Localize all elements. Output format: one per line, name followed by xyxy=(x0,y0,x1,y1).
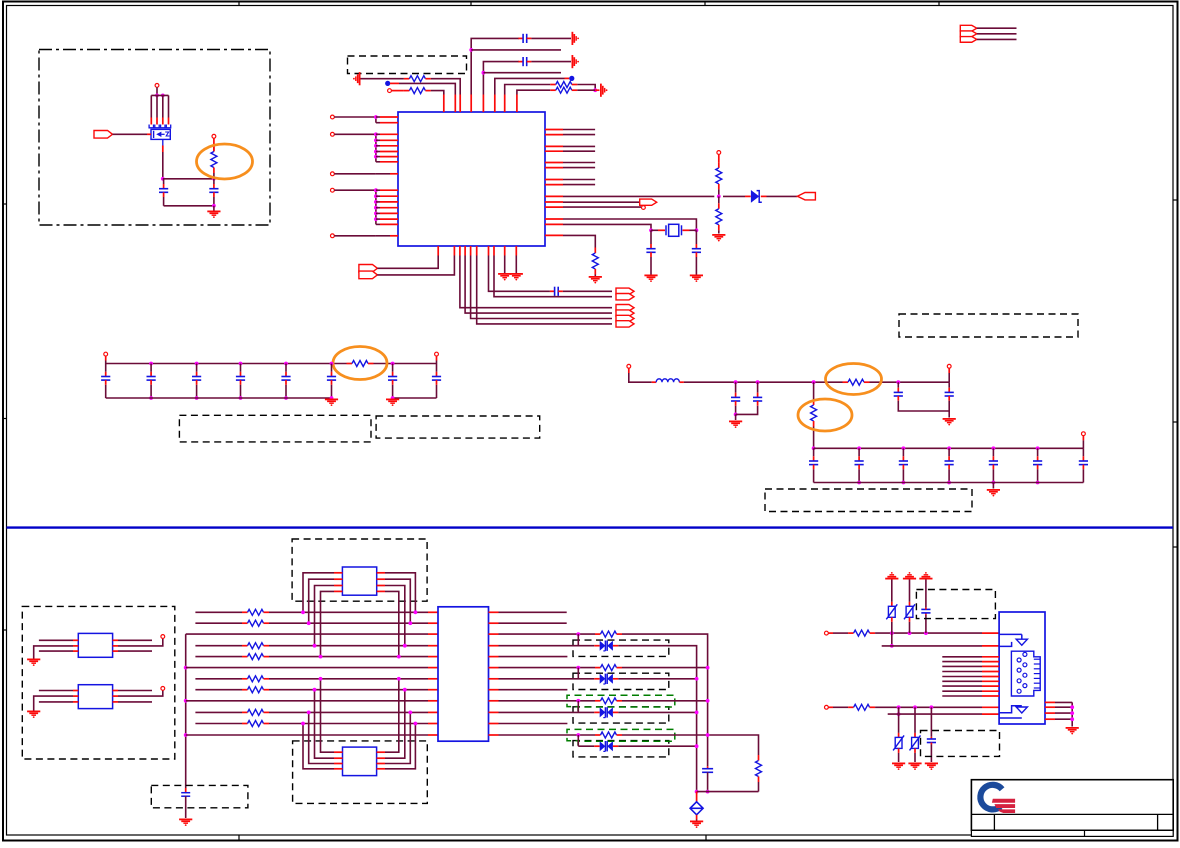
wire J1 signal 8 xyxy=(942,690,982,692)
wire lcap 1 upper xyxy=(858,448,860,456)
ground G9 xyxy=(386,399,399,406)
resistor R14 xyxy=(848,704,875,710)
pin IC2 left row9 xyxy=(428,700,438,702)
wire top row2 xyxy=(882,645,982,647)
op-amp U1 main controller IC body xyxy=(398,112,545,246)
wire T13 down xyxy=(629,373,652,382)
ground G16 xyxy=(179,819,192,826)
wire dio g2 right xyxy=(618,678,696,680)
wire XF2 L4 to row xyxy=(303,724,334,769)
junction bottom bus c2 xyxy=(195,396,199,400)
junction bus B1 y700.8 xyxy=(184,699,188,703)
junction vertical A g2 xyxy=(706,666,710,670)
junction XF2 L4 xyxy=(301,722,305,726)
pin U1 bottom x488.5 xyxy=(488,246,490,256)
wire T8 single horizontal xyxy=(334,235,376,237)
pin U2 right y678.8 xyxy=(489,678,499,680)
pin U1 left y235.8 xyxy=(376,235,398,237)
wire source node bus xyxy=(163,178,214,180)
junction divider node xyxy=(717,195,721,199)
wire C29 upper xyxy=(925,580,927,608)
pin J1 signal 7 xyxy=(982,685,999,687)
pin U2 right y645.7 xyxy=(489,645,499,647)
wire row6 from bus xyxy=(186,667,428,669)
ground G4 xyxy=(712,235,725,242)
wire pin 516 to ground xyxy=(515,256,517,274)
wire sig row g1 xyxy=(499,633,596,635)
wire C18 upper xyxy=(897,382,899,388)
varistor V1 xyxy=(886,602,897,622)
wire row8 left segment xyxy=(195,689,242,691)
wire lcap 6 lower xyxy=(1082,469,1084,482)
connector J1 body xyxy=(999,612,1045,724)
port P5 xyxy=(359,271,378,279)
stub T19 xyxy=(828,706,833,708)
wire row11 left segment xyxy=(195,723,242,725)
wire pin 476 to port row xyxy=(477,256,612,324)
junction right bottom bus xyxy=(391,396,395,400)
pin U1 right y207 xyxy=(545,206,563,208)
resistor R7 xyxy=(716,203,722,230)
junction bus B1 y667.6 xyxy=(184,666,188,670)
pin IC2 left row3 xyxy=(428,633,438,635)
pin U1 bottom x504.7 xyxy=(504,246,506,256)
wire R3 to U1 pin1 xyxy=(431,91,444,95)
pin IC2 left row6 xyxy=(428,667,438,669)
capacitor C22 xyxy=(899,456,908,469)
wire lcap 2 upper xyxy=(902,448,904,456)
junction bottom row x915 xyxy=(913,705,917,709)
wire sig g1 to vertical A xyxy=(622,634,708,766)
wire cap r1 lower xyxy=(436,385,438,398)
highlight ellipse around R9 xyxy=(333,347,387,380)
wire J1 right 1 xyxy=(1055,701,1072,703)
junction crystal right xyxy=(695,228,699,232)
capacitor C19 xyxy=(945,388,954,401)
wire C17 lower xyxy=(736,406,758,415)
wire lcap 5 upper xyxy=(1037,448,1039,456)
wire R11 upper xyxy=(813,382,815,399)
wire C7 to port P10 xyxy=(563,290,612,292)
dashed annotation box D5 xyxy=(899,314,1078,337)
wire row10 right segment xyxy=(269,711,428,713)
wire Q1 source down xyxy=(162,152,164,179)
wire R2 to U1 pin3 xyxy=(431,79,460,95)
wire pin 465 to port row xyxy=(465,256,612,314)
junction lower top bus 3 xyxy=(947,446,951,450)
capacitor C12 xyxy=(281,372,290,385)
wire T4 group A horizontal xyxy=(334,116,376,118)
port P9 xyxy=(616,321,634,327)
pin U1 left y219.1 xyxy=(376,218,398,220)
junction pin5 branch xyxy=(482,71,486,75)
junction bus C17 xyxy=(756,380,760,384)
wire T12 down xyxy=(436,361,438,364)
wire XF2 L3 to row xyxy=(309,712,334,763)
wire link rows top xyxy=(891,633,893,646)
junction lower top bus 2 xyxy=(902,446,906,450)
port P10 xyxy=(616,288,634,294)
wire row4 stub xyxy=(483,72,561,74)
wire U1 right stub y184.6 xyxy=(563,184,595,186)
resistor RN1 xyxy=(242,609,269,615)
pin J1 right 4 xyxy=(1045,718,1055,720)
wire row5 right segment xyxy=(269,656,428,658)
dash-dot block boundary box top-left xyxy=(39,50,270,226)
wire CH2 R1 xyxy=(118,690,152,692)
junction T7 group C r196.2 xyxy=(374,194,378,198)
resistor RN6 xyxy=(242,687,269,693)
stub T12 xyxy=(436,356,438,361)
junction bottom B xyxy=(695,790,699,794)
wire T4 group A vertical bus xyxy=(375,117,377,123)
green dashed box group 4 xyxy=(567,729,675,745)
resistor R8 xyxy=(592,248,598,275)
junction XF1 L3 xyxy=(313,644,317,648)
pin U1 right y184.6 xyxy=(545,184,563,186)
pin U2 right y634.1 xyxy=(489,633,499,635)
junction XF1 R3 xyxy=(403,644,407,648)
wire U1 right stub y167.6 xyxy=(563,167,595,169)
wire node to diode D1 xyxy=(723,195,745,197)
junction top bus c5 xyxy=(330,362,334,366)
pin U1 right y129.5 xyxy=(545,129,563,131)
junction T7 group C r219.1 xyxy=(374,217,378,221)
junction top row x891.8 xyxy=(890,631,894,635)
wire row 219 to crystal right xyxy=(563,219,696,230)
wire varistor V3 upper xyxy=(898,707,900,733)
junction XF1 R2 xyxy=(408,621,412,625)
dashed annotation box D11 xyxy=(921,731,1000,757)
wire U1 right stub y129.5 xyxy=(563,129,595,131)
pin J1 signal 9 xyxy=(982,695,999,697)
wire cap 1 lower xyxy=(105,385,107,398)
pin U1 right y224 xyxy=(545,223,563,225)
pin XF1 R1 xyxy=(377,572,385,574)
ground G20 xyxy=(1066,728,1079,735)
wire dio row g3 left xyxy=(499,711,595,713)
dashed box TVS group 4 xyxy=(573,741,669,757)
pin XF2 L1 xyxy=(334,751,343,753)
junction C16 bottom xyxy=(734,413,738,417)
wire CH2 L1 xyxy=(39,690,73,692)
wire R1 upper lead xyxy=(213,146,215,152)
stub B1 xyxy=(390,82,399,84)
junction lower top bus 4 xyxy=(992,446,996,450)
wire crystal left lead xyxy=(651,229,658,231)
wire P14 stub xyxy=(977,38,1017,40)
wire dio g1 to vertical B xyxy=(618,646,696,792)
junction lower bank entry xyxy=(812,446,816,450)
diode TVS D4 xyxy=(594,707,618,717)
resistor RS3 xyxy=(595,698,622,704)
dashed annotation box D2 xyxy=(179,415,371,442)
wire R1 node down to C2 xyxy=(213,179,215,184)
port P8 xyxy=(616,315,634,321)
wire vertical bus B1 xyxy=(185,634,187,788)
junction sig g3 xyxy=(576,699,580,703)
ground GR2 right-facing xyxy=(572,55,579,68)
wire lcap 6 upper xyxy=(1082,448,1084,456)
wire varistor V2 upper xyxy=(909,580,911,602)
wire cap 3 lower xyxy=(196,385,198,398)
wire lcap 0 lower xyxy=(813,469,815,482)
pin U1 left y140.3 xyxy=(376,139,398,141)
op-amp U2 PHY IC body xyxy=(438,607,489,741)
junction bottom bus c4 xyxy=(284,396,288,400)
pins CH1 left xyxy=(73,640,78,651)
wire XF1 R2 to row xyxy=(385,579,410,623)
diode TVS D2 xyxy=(594,641,618,651)
wire XF1 R1 to row xyxy=(385,573,415,613)
resistor R2 xyxy=(404,76,431,82)
terminal T13 xyxy=(627,364,631,368)
wire cap 5 lower xyxy=(285,385,287,398)
wire cap 5 upper xyxy=(285,364,287,372)
dashed box D8 around XF2 xyxy=(293,741,428,804)
wire pin 459 to port row xyxy=(460,256,612,308)
terminal T5 group B xyxy=(331,132,335,136)
pin J1 signal 5 xyxy=(982,676,999,678)
pin U1 left y224.4 xyxy=(376,223,398,225)
diode TVS D3 xyxy=(594,674,618,684)
junction source node xyxy=(161,177,165,181)
wire lcap 3 upper xyxy=(948,448,950,456)
capacitor C28 xyxy=(181,793,190,797)
junction T7 group C r190.2 xyxy=(374,188,378,192)
pin U1 top 5 xyxy=(482,95,484,113)
wire U1 pin5 up xyxy=(483,62,519,95)
ground G3 xyxy=(690,275,703,282)
wire dio row g4 left xyxy=(578,745,594,747)
wire sig g3 right xyxy=(622,700,708,702)
ground G2 xyxy=(644,275,657,282)
wire R1 to node xyxy=(213,173,215,179)
resistor RS2 xyxy=(595,665,622,671)
wire drop g1 xyxy=(577,634,579,646)
wire row 235 corner down xyxy=(563,235,595,247)
wire C16 upper xyxy=(735,382,737,393)
dashed box TVS group 1 xyxy=(573,640,669,656)
capacitor C6 xyxy=(692,244,701,257)
wire CH1 R1 xyxy=(118,639,152,641)
pin CONN top2 xyxy=(982,645,999,647)
wire C3 to GR1 xyxy=(531,37,571,39)
pin J1 right 2 xyxy=(1045,706,1055,708)
pin U1 left y196.2 xyxy=(376,195,398,197)
wire crystal right to C6 xyxy=(695,230,697,244)
resistor R1 xyxy=(211,146,217,173)
wire R10 to T14 xyxy=(870,381,950,383)
pin U1 left y122.7 xyxy=(376,122,398,124)
wire row8 right segment xyxy=(269,689,428,691)
title block divider lines xyxy=(971,814,1173,830)
dashed annotation box D3 xyxy=(376,416,540,438)
pin stub Q1 drain pin 3 xyxy=(162,118,164,125)
port P7 xyxy=(616,310,634,316)
junction lower bottom bus 1 xyxy=(857,481,861,485)
junction lower top bus 5 xyxy=(1036,446,1040,450)
wire pin 470 to port row xyxy=(471,256,612,319)
varistor V4 xyxy=(910,733,921,753)
pin U1 right y134.6 xyxy=(545,134,563,136)
dashed annotation box D4 xyxy=(765,489,972,512)
pin U1 bottom x438.2 xyxy=(437,246,439,256)
transistor Q1 drain comb xyxy=(149,125,171,128)
resistor RS1 xyxy=(595,631,622,637)
capacitor C23 xyxy=(945,456,954,469)
wire Q1 drain pin 3 vertical xyxy=(162,95,164,117)
highlight ellipse around R1 xyxy=(197,144,253,179)
junction vertical A g3 xyxy=(706,699,710,703)
terminal T17 xyxy=(161,687,165,691)
wire cap 2 lower xyxy=(150,385,152,398)
wire lcap 4 lower xyxy=(992,469,994,482)
wire R11 lower xyxy=(813,427,815,449)
capacitor C2 xyxy=(209,184,218,197)
capacitor C15 xyxy=(432,372,441,385)
terminal T15 xyxy=(1082,432,1086,436)
wire pin 494 to port P11 xyxy=(494,256,612,297)
stub T18 xyxy=(828,632,833,634)
port P3 xyxy=(640,199,657,205)
wire diamond to ground xyxy=(696,820,698,821)
wire row 207 stub xyxy=(563,206,641,208)
power flag F3 xyxy=(919,572,932,579)
wire J1 right 3 xyxy=(1055,712,1072,714)
wire row2 left segment xyxy=(195,622,242,624)
junction XF2 L2 xyxy=(313,688,317,692)
resistor RN2 xyxy=(242,620,269,626)
power terminal above R1 xyxy=(212,134,216,138)
junction sig g1 xyxy=(576,632,580,636)
terminal T3 xyxy=(388,89,392,93)
diode TVS D5 xyxy=(594,741,618,751)
wire cap 4 lower xyxy=(240,385,242,398)
wire C16 lower xyxy=(735,406,737,415)
junction bottom row x931.4 xyxy=(930,705,934,709)
pin stub Q1 drain pin 4 xyxy=(168,118,170,125)
wire row 196 to junction xyxy=(563,195,714,197)
junction top bus c3 xyxy=(239,362,243,366)
junction lower bottom bus 2 xyxy=(902,481,906,485)
wire row4 right segment xyxy=(269,645,428,647)
pin U2 right y723.5 xyxy=(489,723,499,725)
junction bottom bus ground xyxy=(330,396,334,400)
wire J1 signal 9 xyxy=(942,695,982,697)
wire crystal right lead xyxy=(690,229,697,231)
capacitor C16 xyxy=(731,393,740,406)
wire pin 504 to ground xyxy=(504,256,506,274)
wire Q1 drain pin 1 vertical xyxy=(150,95,152,117)
capacitor C10 xyxy=(192,372,201,385)
terminal T16 xyxy=(161,635,165,639)
resistor R10 xyxy=(843,379,870,385)
wire row1 left segment xyxy=(195,611,242,613)
connector J1 bottom shield arrow xyxy=(999,706,1027,718)
resistor R13 xyxy=(848,630,875,636)
pin U1 bottom x476.7 xyxy=(476,246,478,256)
wire lower bank bottom bus xyxy=(814,482,1084,484)
wire lower bank ground stub xyxy=(992,483,994,489)
ground G15 xyxy=(690,821,703,828)
pin U1 left y190.2 xyxy=(376,189,398,191)
pin IC2 left row8 xyxy=(428,689,438,691)
ground G18 xyxy=(908,763,921,770)
wire row7 left segment xyxy=(195,678,242,680)
pin IC2 left row7 xyxy=(428,678,438,680)
pin U1 left y207.7 xyxy=(376,207,398,209)
wire J1 signal 5 xyxy=(942,676,982,678)
pin XF2 L2 xyxy=(334,757,343,759)
capacitor C17 xyxy=(753,393,762,406)
wire cap 6 lower xyxy=(331,385,333,398)
stub C28 top xyxy=(185,788,187,793)
wire U1 right stub y146.4 xyxy=(563,145,595,147)
wire T15 down xyxy=(1082,440,1084,448)
pin XF2 R2 xyxy=(377,757,385,759)
pin U1 left y173.8 xyxy=(376,173,398,175)
junction T7 group C r213.4 xyxy=(374,212,378,216)
pin U1 left y156.6 xyxy=(376,156,398,158)
wire node to C1 xyxy=(163,179,165,184)
capacitor C29 xyxy=(921,607,930,615)
junction lower bottom bus 4 xyxy=(992,481,996,485)
junction XF1 R4 xyxy=(397,655,401,659)
capacitor C1 xyxy=(159,184,168,197)
pin U1 right y202 xyxy=(545,201,563,203)
terminal T11 xyxy=(104,352,108,356)
junction bottom bus c1 xyxy=(149,396,153,400)
stub B2 xyxy=(565,77,570,79)
pin U1 bottom x465.1 xyxy=(464,246,466,256)
wire cap bank bottom bus xyxy=(106,397,332,399)
pin U1 top 1 xyxy=(443,95,445,113)
resistor RN8 xyxy=(242,721,269,727)
capacitor C5 xyxy=(646,244,655,257)
pin J1 right 3 xyxy=(1045,712,1055,714)
junction top row x925.9 xyxy=(924,631,928,635)
pin U1 top 8 xyxy=(516,95,518,113)
junction pin4 branch xyxy=(469,48,473,52)
pin U2 right y735.0 xyxy=(489,734,499,736)
junction bus B1 y735.0 xyxy=(184,733,188,737)
pin U1 bottom x494 xyxy=(493,246,495,256)
pin U2 right y656.6 xyxy=(489,656,499,658)
junction XF2 L3 xyxy=(307,711,311,715)
wire XF1 R4 to row xyxy=(385,591,399,656)
terminal T12 xyxy=(435,352,439,356)
transistor Q1 body xyxy=(151,129,170,139)
wire row10 left segment xyxy=(195,711,242,713)
wire U2 right stub y656.6 xyxy=(499,656,568,658)
wire varistor V3 lower xyxy=(898,753,900,762)
ground GR3 right-facing xyxy=(601,84,608,97)
capacitor C9 xyxy=(147,372,156,385)
wire dio g4 right xyxy=(618,745,696,747)
wire U1 pin6 up xyxy=(495,78,565,94)
pin U1 right y196.4 xyxy=(545,195,563,197)
wire R5 to node xyxy=(577,89,595,91)
power flag F2 xyxy=(903,572,916,579)
wire XF2 R4 to row xyxy=(385,724,415,769)
resistor R6 xyxy=(716,162,722,189)
ground G1 xyxy=(207,211,220,218)
junction XF2 R1 xyxy=(397,677,401,681)
wire drop g2 xyxy=(577,668,579,679)
wire P4 to pin 438 xyxy=(377,256,438,269)
junction J1 right y719.2 xyxy=(1070,717,1074,721)
